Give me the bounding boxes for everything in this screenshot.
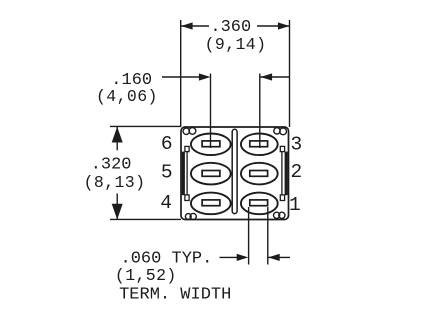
extension line right of .360 dimension [289,20,291,127]
.060 dimension leader line left [220,256,239,258]
leader centerline terminal 6 [210,74,212,149]
svg-text:.320: .320 [91,156,132,175]
terminal 5 slot [202,171,220,177]
svg-text:4: 4 [160,192,172,214]
terminal 4 slot [202,200,220,206]
svg-text:6: 6 [161,133,173,155]
svg-text:1: 1 [289,194,301,216]
corner circles top-right [274,128,287,135]
terminal 3 ellipse [241,134,278,156]
.360 dimension line left segment [181,25,209,27]
leader centerline terminal 3 [259,74,261,149]
svg-text:5: 5 [161,162,173,184]
extension line bottom of .320 dimension [110,218,181,220]
arrowhead .060 right [268,254,280,261]
corner circles bottom-left [185,213,196,219]
extension line left of .060 term width [248,207,250,265]
terminal 1 ellipse [241,193,278,215]
svg-text:2: 2 [291,161,303,183]
terminal 6 ellipse [191,134,231,156]
arrowhead .160 right [261,73,273,80]
svg-text:(8,13): (8,13) [84,173,146,192]
svg-text:(9,14): (9,14) [205,35,267,54]
arrowhead .360 right [278,22,290,29]
center divider rib [232,129,237,213]
extension line top of .320 dimension [110,125,181,127]
.320 dimension line top segment [116,127,118,150]
arrowhead .320 top [112,127,123,143]
terminal 2 slot [250,171,268,177]
svg-text:(1,52): (1,52) [115,266,177,285]
terminal 2 ellipse [241,163,278,185]
.160 dimension leader line right [261,76,290,78]
arrowhead .160 left [199,73,211,80]
arrowhead .360 left [181,22,193,29]
.360 dimension line right segment [257,25,290,27]
svg-text:(4,06): (4,06) [96,87,158,106]
extension line left of .360 dimension [180,20,182,127]
right retaining clip [280,146,288,200]
extension line right of .060 term width [267,207,269,265]
connector body outline [181,127,289,220]
terminal 4 ellipse [191,193,231,215]
left retaining clip [182,146,189,200]
arrowhead .320 bottom [112,204,123,220]
.060 dimension leader line right [268,256,290,258]
terminal 6 slot [202,141,220,147]
svg-text:TERM. WIDTH: TERM. WIDTH [119,285,231,304]
.160 dimension leader line left [162,76,200,78]
corner circles bottom-right [274,212,286,218]
.320 dimension line bottom segment [116,194,118,220]
terminal 1 slot [250,200,268,206]
corner circles top-left [183,127,196,134]
terminal 5 ellipse [191,163,231,185]
svg-text:3: 3 [291,134,303,156]
arrowhead .060 left [237,254,249,261]
terminal 3 slot [250,141,268,147]
